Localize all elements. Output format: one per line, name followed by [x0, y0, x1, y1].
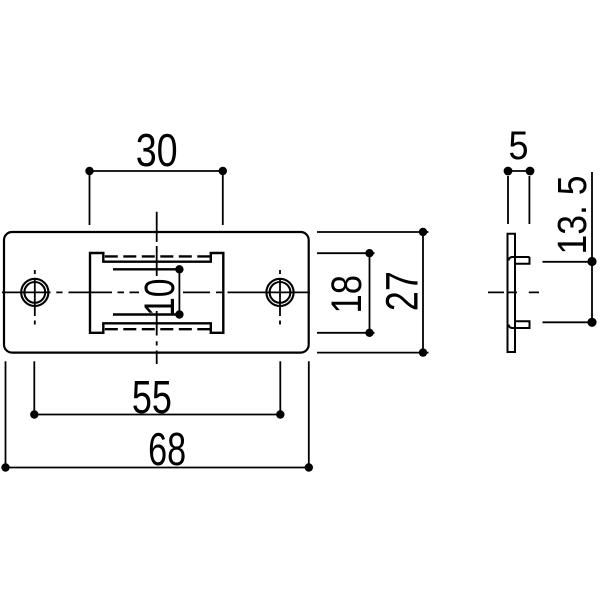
svg-text:27: 27: [377, 271, 428, 311]
dimension 5 left extension line: [507, 176, 509, 224]
svg-text:13. 5: 13. 5: [549, 176, 595, 255]
dimension 27 top dot: [419, 228, 427, 236]
side view centerline: [488, 291, 539, 293]
dimension 68 right extension line: [308, 361, 310, 467]
dimension 68 left extension line: [5, 361, 7, 467]
dimension 30 left extension line: [89, 171, 91, 225]
svg-text:18: 18: [323, 275, 371, 314]
dimension 13.5 top extension line: [543, 261, 593, 263]
left hole outer circle: [21, 279, 48, 306]
vertical centerline: [156, 212, 158, 364]
dimension 5 right dot: [526, 167, 535, 176]
dimension 27 bottom dot: [419, 348, 427, 356]
svg-text:5: 5: [509, 124, 529, 168]
horizontal centerline: [2, 291, 310, 293]
svg-text:30: 30: [136, 124, 178, 176]
dimension 27 extension bottom: [317, 352, 429, 354]
dimension 13.5 text: [549, 176, 595, 255]
dimension 13.5 top dot: [587, 257, 596, 266]
left hole vertical centerline: [34, 270, 36, 325]
dimension 5 right extension line: [528, 176, 530, 224]
dimension 10 lower dot: [175, 310, 183, 318]
dimension 27 line: [422, 232, 424, 353]
dimension 55 line: [34, 414, 280, 416]
side view body: [508, 234, 516, 352]
dimension 18 top dot: [365, 249, 373, 257]
dimension 68 right dot: [305, 463, 313, 471]
slot lower edge: [113, 313, 179, 315]
slot upper edge: [113, 268, 179, 270]
plate outline: [4, 232, 309, 353]
dimension 30 right extension line: [222, 171, 224, 225]
right hole inner circle: [270, 282, 291, 303]
dimension 13.5 bottom dot: [587, 318, 596, 327]
dimension 30 line: [90, 170, 223, 172]
dimension 27 text: [377, 271, 428, 311]
dimension 5 left dot: [504, 167, 513, 176]
dimension 10 text backing: [139, 278, 177, 312]
dimension 30 right dot: [219, 167, 227, 175]
dimension 18 bottom dot: [365, 329, 373, 337]
dimension 68 left dot: [1, 463, 9, 471]
dimension 18 text: [323, 275, 371, 314]
dimension 10 text: [136, 278, 184, 316]
center bracket outline: [90, 253, 223, 333]
dimension 10 connector line: [178, 269, 180, 314]
dimension 55 right extension line: [279, 361, 281, 414]
svg-text:68: 68: [148, 423, 186, 475]
bracket top hidden line: [105, 255, 211, 257]
svg-text:10: 10: [136, 278, 184, 316]
dimension 68 line: [6, 467, 309, 469]
dimension 55 left dot: [30, 410, 38, 418]
svg-text:55: 55: [132, 371, 172, 423]
dimension 10 upper dot: [175, 265, 183, 273]
right hole vertical centerline: [279, 270, 281, 325]
dimension 18 extension bottom: [317, 332, 375, 334]
dimension 30 left dot: [85, 167, 93, 175]
bracket bottom hidden line: [105, 328, 211, 330]
dimension 5 line: [508, 170, 530, 172]
dimension 13.5 bottom extension line: [543, 321, 593, 323]
dimension 55 right dot: [276, 410, 284, 418]
dimension 13.5 line: [591, 172, 593, 322]
dimension 55 left extension line: [33, 361, 35, 414]
left hole inner circle: [24, 282, 45, 303]
dimension 27 extension top: [317, 231, 429, 233]
side view top tab: [509, 257, 530, 264]
dimension 18 extension top: [317, 252, 375, 254]
side view bottom tab: [509, 321, 530, 328]
dimension 18 line: [369, 253, 371, 333]
right hole outer circle: [266, 279, 293, 306]
